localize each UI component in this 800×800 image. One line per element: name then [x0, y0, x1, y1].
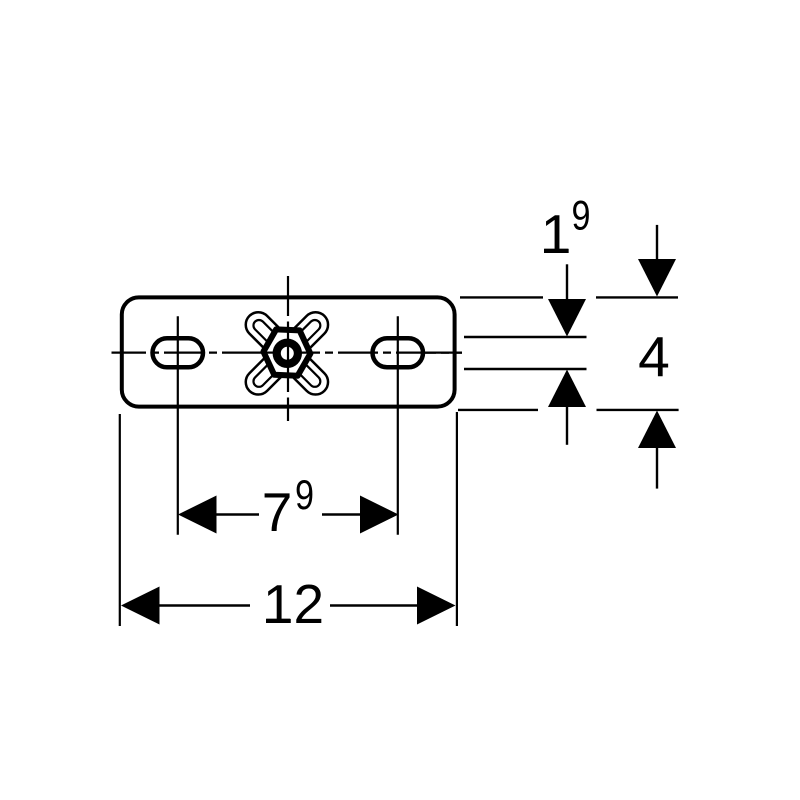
- plate outline: [122, 297, 455, 406]
- vertical centerline: [287, 276, 289, 421]
- left slot: [153, 338, 204, 367]
- svg-text:4: 4: [638, 326, 670, 390]
- x-cross inner slot NW-SE: [251, 318, 322, 389]
- right slot centerline: [397, 316, 399, 535]
- svg-text:1: 1: [541, 203, 572, 265]
- left slot centerline: [177, 316, 179, 535]
- dimension 1.9 down arrow: [548, 264, 586, 336]
- label 7.9: [262, 471, 314, 543]
- svg-text:9: 9: [572, 192, 591, 239]
- label 1.9: [541, 192, 591, 266]
- extension line plate top: [460, 296, 678, 298]
- extension line 12 right: [456, 412, 458, 626]
- x-cross inner slot NE-SW: [251, 318, 322, 389]
- svg-text:7: 7: [262, 481, 293, 543]
- extension line slot top: [464, 336, 587, 338]
- hexagon nut: [262, 329, 311, 376]
- extension line 12 left: [119, 414, 121, 626]
- dimension 4 up arrow: [638, 411, 676, 489]
- dimension 12 line: [121, 587, 456, 625]
- label 12: [263, 573, 324, 635]
- washer ring: [277, 343, 298, 364]
- x-cross outer arm NE-SW: [241, 307, 334, 400]
- dimension 4 down arrow: [638, 225, 676, 297]
- svg-text:9: 9: [295, 471, 314, 518]
- extension line slot bottom: [464, 368, 587, 370]
- dimension 7.9 line: [178, 496, 399, 534]
- centerline cross inside hexagon: [264, 330, 311, 377]
- horizontal centerline: [112, 352, 463, 354]
- dimension 1.9 up arrow: [548, 370, 586, 445]
- right slot: [373, 338, 424, 367]
- extension line plate bottom: [458, 409, 679, 411]
- svg-text:12: 12: [263, 573, 324, 635]
- x-cross outer arm NW-SE: [241, 307, 334, 400]
